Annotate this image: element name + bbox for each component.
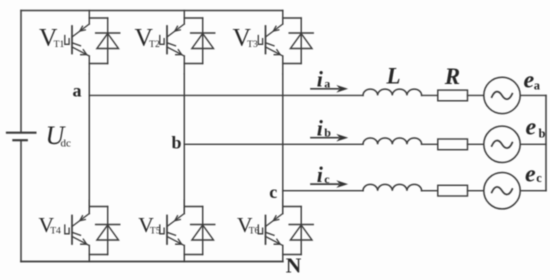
current arrow ic <box>311 181 347 187</box>
wire left rail lower segment <box>20 140 22 261</box>
wire inductor to resistor (c) <box>422 190 438 192</box>
wire bottom rail (negative DC bus) <box>21 261 283 263</box>
svg-text:T3: T3 <box>247 39 258 50</box>
diode D5 (antiparallel with VT5) <box>184 207 214 255</box>
label VT2 <box>135 23 160 52</box>
diode D4 (antiparallel with VT4) <box>89 207 119 255</box>
diode D2 (antiparallel with VT2) <box>184 18 214 64</box>
node a (phase a line) <box>89 94 363 96</box>
transistor VT4 (IGBT) <box>65 200 90 262</box>
svg-text:b: b <box>539 126 546 140</box>
svg-text:T5: T5 <box>150 226 161 237</box>
wire source to right bus (a) <box>520 94 546 96</box>
node b (phase b line) <box>184 143 363 145</box>
wire leg 3 (phase c leg) <box>282 74 284 214</box>
wire resistor to source (c) <box>468 190 484 192</box>
transistor VT1 (IGBT) <box>65 11 90 75</box>
svg-text:b: b <box>172 132 182 152</box>
svg-text:c: c <box>324 172 330 186</box>
diode D6 (antiparallel with VT6) <box>283 207 313 255</box>
resistor R (a phase) <box>438 90 468 101</box>
diode D3 (antiparallel with VT3) <box>283 18 313 64</box>
svg-text:a: a <box>324 77 330 91</box>
svg-text:c: c <box>269 182 277 202</box>
DC source Udc (battery) <box>7 133 35 141</box>
wire resistor to source (a) <box>468 94 484 96</box>
current arrow ia <box>311 86 347 92</box>
wire left rail upper segment <box>20 11 22 133</box>
svg-text:L: L <box>386 64 401 89</box>
wire top rail (positive DC bus) <box>21 10 283 12</box>
svg-text:e: e <box>525 162 536 188</box>
wire source to right bus (c) <box>520 190 546 192</box>
wire leg 2 (phase b leg) <box>183 74 185 214</box>
wire source to right bus (b) <box>520 143 546 145</box>
label ic <box>317 162 331 187</box>
inductor L (b phase) <box>363 138 422 144</box>
svg-text:c: c <box>536 171 542 185</box>
svg-text:a: a <box>534 79 541 93</box>
label VT5 <box>138 213 161 237</box>
inductor L (c phase) <box>363 184 422 190</box>
node c (phase c line) <box>283 190 363 192</box>
label ib <box>317 116 332 141</box>
label ia <box>317 67 331 92</box>
transistor VT6 (IGBT) <box>258 200 283 262</box>
wire inductor to resistor (b) <box>422 143 438 145</box>
label VT4 <box>39 213 62 237</box>
svg-text:a: a <box>73 80 82 100</box>
transistor VT3 (IGBT) <box>258 11 283 75</box>
AC source eb <box>484 126 520 162</box>
svg-text:i: i <box>317 116 324 141</box>
label VT6 <box>237 213 260 237</box>
svg-text:R: R <box>444 64 460 89</box>
svg-text:N: N <box>286 254 302 278</box>
svg-text:e: e <box>526 115 537 141</box>
svg-text:dc: dc <box>61 138 72 150</box>
diode D1 (antiparallel with VT1) <box>89 18 119 64</box>
AC source ec <box>484 173 520 209</box>
svg-text:T2: T2 <box>149 39 160 50</box>
svg-text:i: i <box>317 162 324 187</box>
wire leg 1 (phase a leg) <box>88 74 90 214</box>
wire right bus (neutral) <box>545 95 547 190</box>
current arrow ib <box>311 135 347 141</box>
inductor L (a phase) <box>363 89 422 95</box>
transistor VT5 (IGBT) <box>160 200 185 262</box>
label ea <box>524 67 541 93</box>
wire inductor to resistor (a) <box>422 94 438 96</box>
transistor VT2 (IGBT) <box>160 11 185 75</box>
AC source ea <box>484 77 520 113</box>
svg-text:T6: T6 <box>249 226 260 237</box>
svg-text:i: i <box>317 67 324 92</box>
label Udc <box>46 121 72 150</box>
svg-text:T4: T4 <box>50 226 61 237</box>
label eb <box>526 115 546 141</box>
resistor R (c phase) <box>438 185 468 196</box>
label VT3 <box>233 23 258 52</box>
resistor R (b phase) <box>438 139 468 150</box>
label ec <box>525 162 542 188</box>
svg-text:b: b <box>324 126 331 140</box>
label VT1 <box>39 23 64 52</box>
svg-text:T1: T1 <box>54 39 65 50</box>
wire resistor to source (b) <box>468 143 484 145</box>
